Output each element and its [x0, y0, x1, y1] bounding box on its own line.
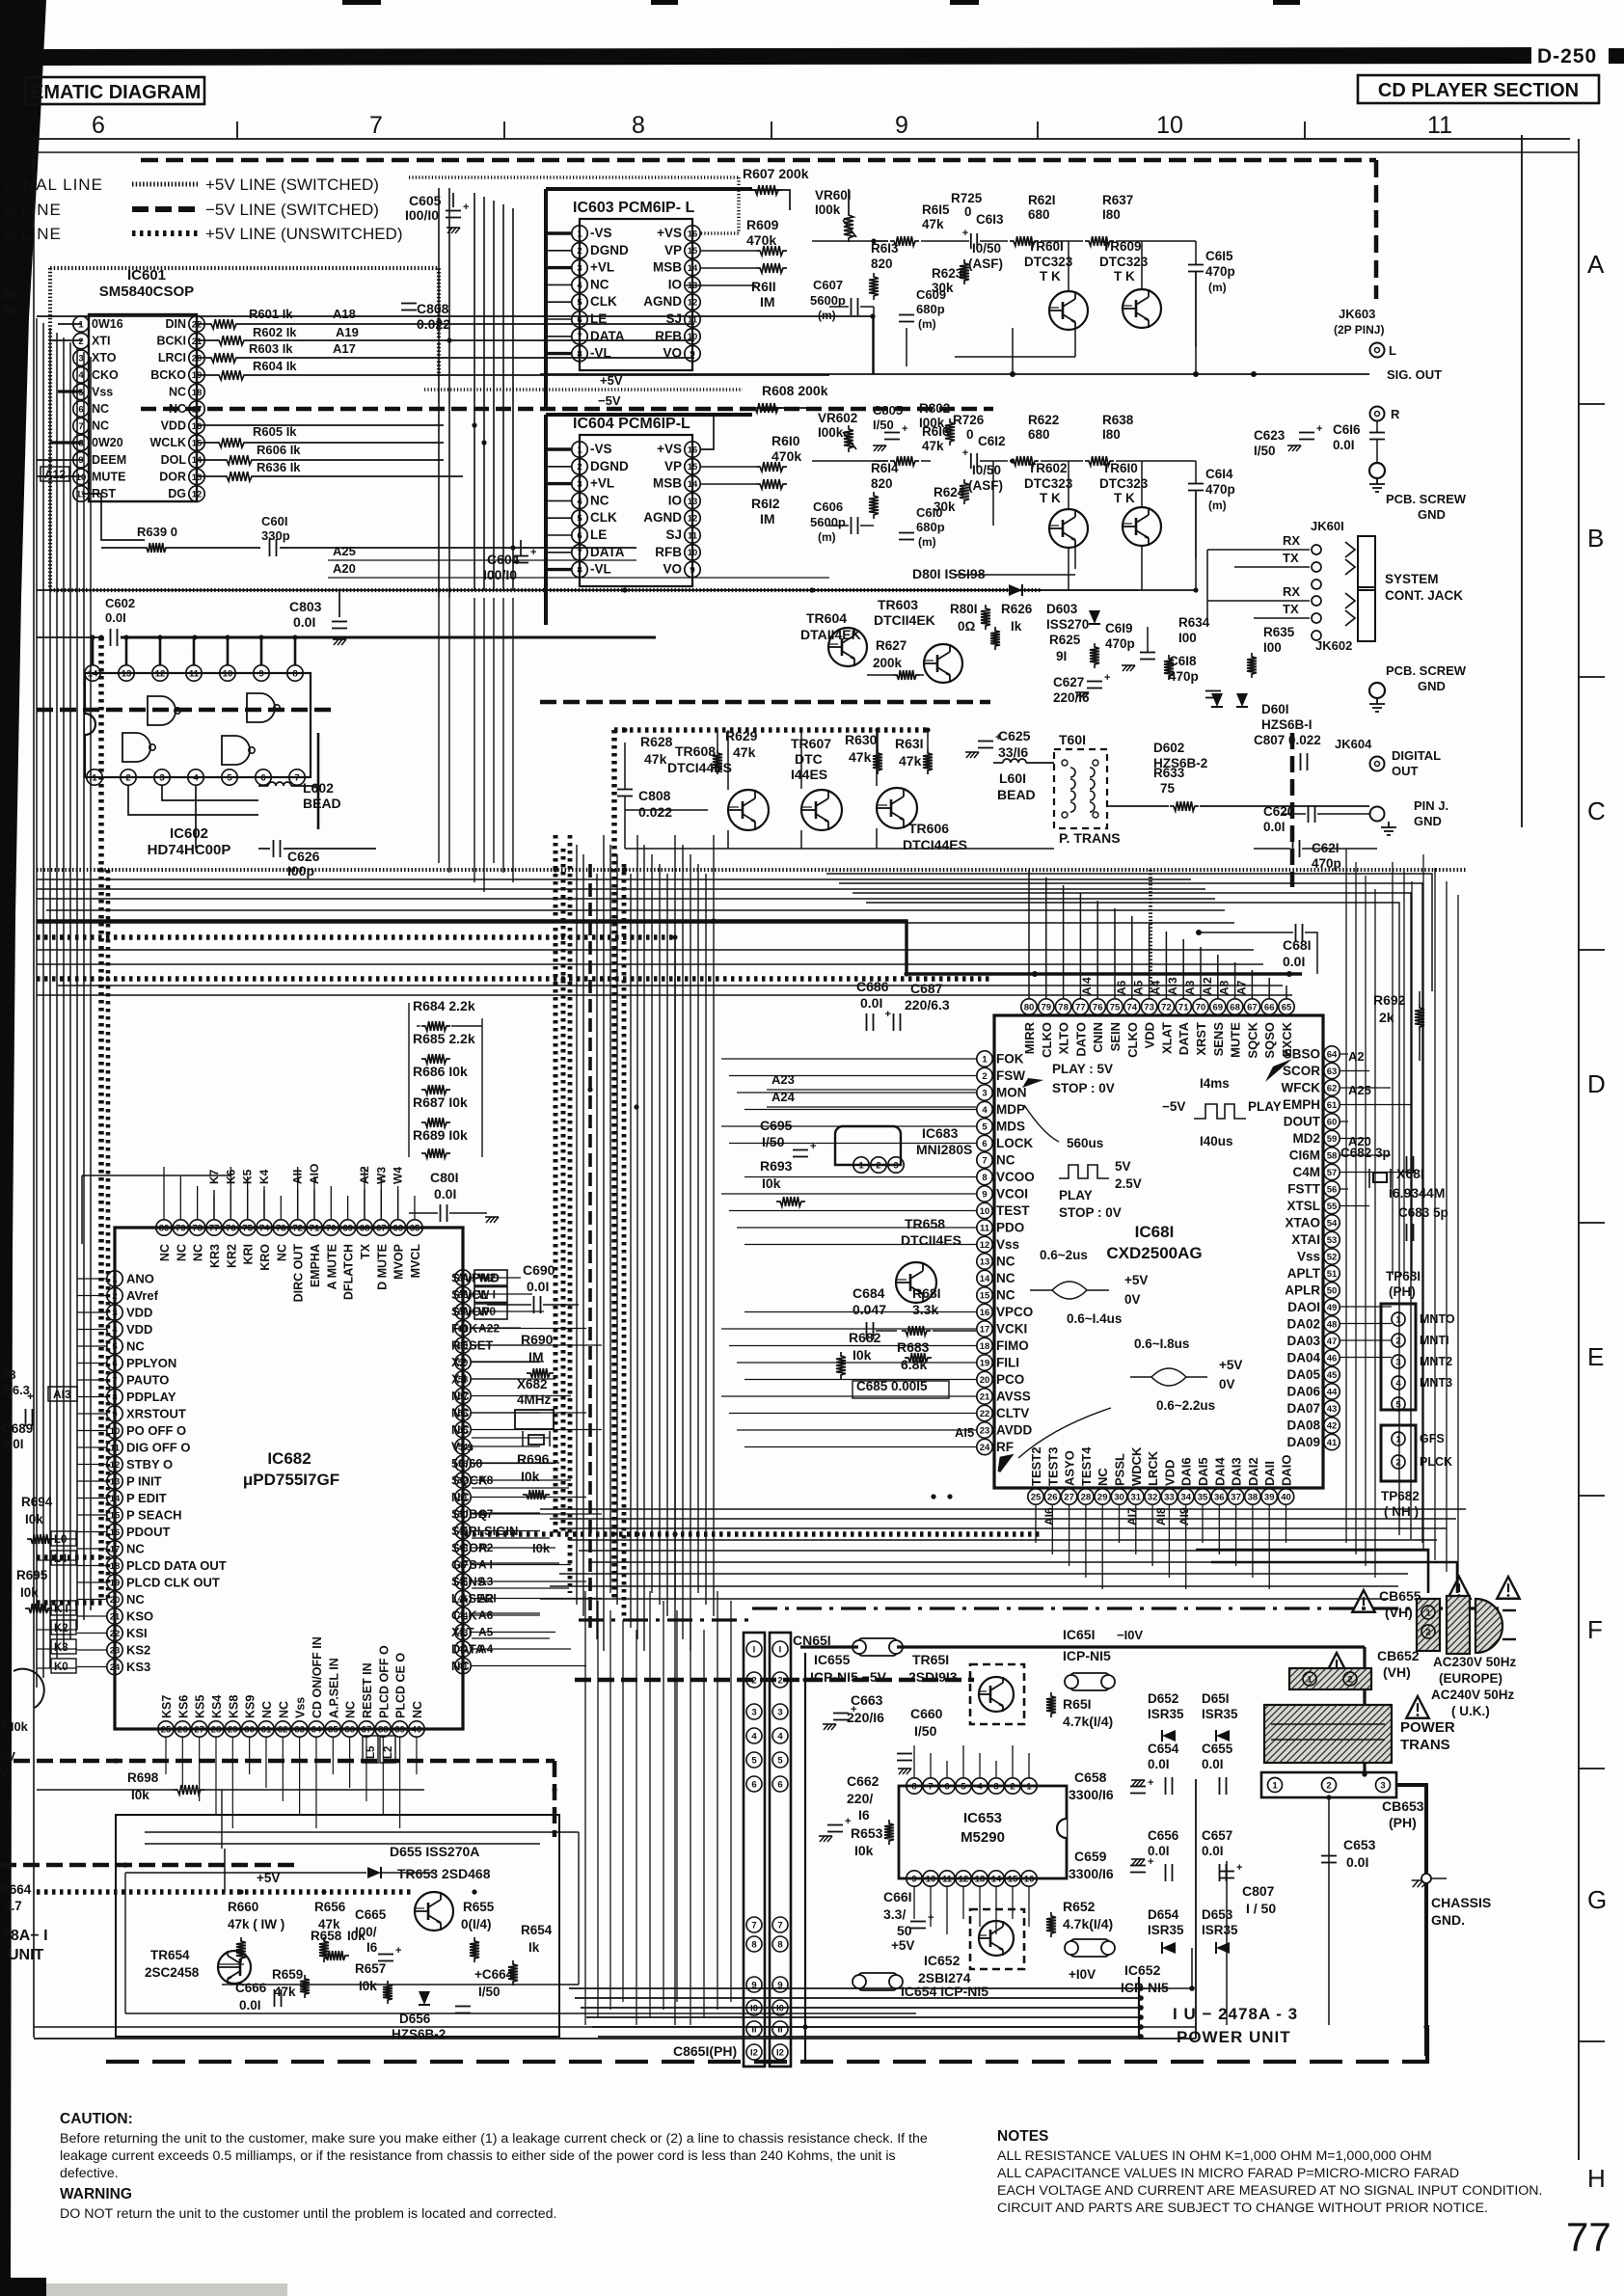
svg-text:DG: DG: [168, 487, 186, 500]
IC601 pin 9 DEEM: [73, 452, 89, 468]
svg-text:DAI6: DAI6: [1179, 1457, 1194, 1486]
svg-text:1: 1: [1026, 1781, 1032, 1792]
IC682 pin 29 KS8: [225, 1721, 240, 1737]
wire SIG OUT: [1138, 373, 1369, 375]
IC682 pin 56 NC: [455, 1405, 471, 1420]
svg-text:DGND: DGND: [590, 243, 629, 257]
IC681 pin 14 NC: [977, 1270, 992, 1285]
svg-text:EMPHA: EMPHA: [309, 1244, 322, 1287]
svg-text:D80I ISSI98: D80I ISSI98: [912, 566, 986, 581]
svg-text:KR2: KR2: [225, 1244, 238, 1268]
IC603 pin 11 SJ: [685, 311, 700, 327]
svg-text:33: 33: [294, 1724, 305, 1735]
IC602 pin 12: [152, 665, 168, 681]
svg-text:DTC: DTC: [795, 751, 823, 767]
svg-text:SQSO: SQSO: [1262, 1022, 1277, 1059]
svg-text:I U − 2478A - 3: I U − 2478A - 3: [1173, 2005, 1298, 2023]
svg-text:29: 29: [228, 1724, 238, 1735]
svg-text:VR602: VR602: [818, 411, 857, 425]
svg-text:4MHz: 4MHz: [517, 1392, 552, 1407]
svg-text:C602: C602: [105, 596, 135, 610]
svg-text:FSW: FSW: [996, 1068, 1025, 1083]
IC682 pin 72 DIRC OUT: [289, 1220, 305, 1235]
svg-text:2: 2: [1395, 1336, 1400, 1346]
IC653 pin 15: [1005, 1871, 1020, 1886]
heavy dash bus bottom left: [0, 1863, 299, 1868]
svg-text:0Ω: 0Ω: [958, 619, 976, 634]
svg-text:MVCL: MVCL: [409, 1244, 422, 1279]
svg-text:NC: NC: [451, 1389, 470, 1403]
svg-text:RFB: RFB: [655, 545, 682, 559]
svg-text:40: 40: [1281, 1492, 1291, 1502]
svg-text:GND: GND: [1414, 814, 1442, 828]
svg-text:0V: 0V: [1124, 1292, 1141, 1307]
svg-text:27: 27: [1064, 1492, 1074, 1502]
svg-text:RESET IN: RESET IN: [361, 1662, 374, 1718]
svg-text:NC: NC: [169, 385, 186, 398]
svg-text:PSSL: PSSL: [1113, 1453, 1127, 1486]
svg-text:35: 35: [1198, 1492, 1208, 1502]
svg-text:VP: VP: [664, 459, 682, 473]
IC682 pin 24 KS3: [107, 1659, 122, 1674]
svg-text:T60I: T60I: [1059, 732, 1086, 747]
svg-text:AVSS: AVSS: [996, 1390, 1031, 1404]
IC682 pin 41 NC: [455, 1658, 471, 1673]
svg-text:79: 79: [176, 1223, 186, 1233]
IC604 pin 6 LE: [572, 527, 587, 543]
svg-text:TEST3: TEST3: [1045, 1447, 1060, 1486]
IC681 pin 11 PDO: [977, 1220, 992, 1235]
jack JK603 R: [1370, 407, 1385, 421]
IC682 pin 42 DATA: [455, 1641, 471, 1657]
svg-text:NC: NC: [590, 493, 609, 507]
svg-text:MON: MON: [996, 1086, 1027, 1100]
svg-text:9: 9: [911, 1874, 916, 1884]
svg-text:0.0I: 0.0I: [1346, 1854, 1368, 1870]
svg-text:16: 16: [980, 1308, 990, 1318]
IC681 pin 62 WFCK: [1324, 1080, 1340, 1095]
svg-text:6: 6: [92, 112, 105, 139]
svg-text:KRO: KRO: [258, 1244, 272, 1271]
IC681 pin 5 MDS: [977, 1119, 992, 1134]
arrow to pin 24: [999, 1456, 1011, 1472]
svg-text:R657: R657: [355, 1961, 386, 1976]
wire from T601 to R633: [1107, 805, 1111, 807]
svg-text:DAI5: DAI5: [1196, 1457, 1210, 1486]
wires corridor to IC681 left pins: [721, 1058, 976, 1060]
svg-text:26: 26: [1047, 1492, 1058, 1502]
svg-text:61: 61: [1327, 1100, 1338, 1111]
svg-text:D603: D603: [1046, 602, 1078, 616]
IC682 pin 34 CD ON/OFF IN: [309, 1721, 324, 1737]
IC682 pin 47 GFS: [455, 1556, 471, 1572]
IC682 pin 3 VDD: [107, 1305, 122, 1320]
IC681 pin 49 DAOI: [1324, 1299, 1340, 1314]
svg-text:AGND: AGND: [643, 294, 682, 309]
svg-text:C605: C605: [409, 193, 442, 208]
svg-text:EMATIC DIAGRAM: EMATIC DIAGRAM: [31, 82, 201, 103]
wires around TR602 row B: [812, 460, 888, 462]
svg-text:77: 77: [1566, 2214, 1611, 2259]
IC653 pin 1: [1021, 1778, 1037, 1794]
svg-text:NC: NC: [275, 1244, 288, 1261]
IC682 pin 46 SENS: [455, 1574, 471, 1589]
legend -5V switched sample line: [132, 206, 198, 212]
svg-text:0.0I: 0.0I: [1333, 438, 1355, 452]
svg-text:M5290: M5290: [961, 1829, 1005, 1846]
svg-text:IM: IM: [760, 294, 775, 310]
svg-text:NC: NC: [411, 1701, 424, 1718]
svg-text:A20: A20: [333, 561, 356, 576]
svg-text:TR609: TR609: [1102, 239, 1142, 254]
svg-text:R659: R659: [272, 1967, 303, 1982]
IC682 pin 36 NC: [341, 1721, 357, 1737]
svg-text:I0: I0: [750, 2004, 758, 2014]
connector CN651 strip A: [744, 1633, 765, 2066]
svg-text:W4: W4: [392, 1167, 405, 1184]
svg-text:9: 9: [258, 668, 263, 679]
heavy dotted columns right of IC682: [554, 835, 558, 1534]
IC604 pin 4 NC: [572, 493, 587, 508]
verticals feeding C8651: [584, 1591, 586, 2025]
svg-text:SCOR: SCOR: [1283, 1064, 1320, 1078]
IC653 pin 5: [956, 1778, 971, 1794]
svg-text:1: 1: [982, 1054, 988, 1065]
svg-text:PO OFF O: PO OFF O: [126, 1423, 186, 1438]
svg-text:3300/I6: 3300/I6: [1069, 1787, 1114, 1802]
IC682 pin 23 KS2: [107, 1642, 122, 1658]
svg-text:A7: A7: [1234, 980, 1248, 995]
svg-text:680p: 680p: [916, 302, 945, 316]
svg-text:A19: A19: [336, 325, 359, 339]
svg-text:0.0I: 0.0I: [1148, 1757, 1170, 1771]
svg-text:200k: 200k: [873, 656, 903, 670]
svg-text:A23: A23: [771, 1072, 795, 1087]
svg-text:CNIN: CNIN: [1091, 1022, 1105, 1053]
svg-text:DA03: DA03: [1286, 1334, 1320, 1348]
svg-text:PCO: PCO: [996, 1372, 1024, 1387]
svg-text:13: 13: [110, 1476, 121, 1487]
wire MUTE: [37, 475, 82, 477]
svg-text:+5V: +5V: [1219, 1358, 1242, 1372]
svg-text:ISR35: ISR35: [1202, 1923, 1238, 1937]
svg-text:IC682: IC682: [267, 1449, 311, 1468]
svg-text:+: +: [1148, 1777, 1153, 1789]
column ruler ticks: [236, 122, 238, 139]
svg-text:I00k: I00k: [815, 203, 841, 217]
IC681 pin 76 CNIN: [1090, 999, 1105, 1014]
IC682 pin 12 STBY O: [107, 1456, 122, 1472]
svg-text:VDD: VDD: [126, 1322, 152, 1337]
svg-text:TR653 2SD468: TR653 2SD468: [397, 1866, 491, 1881]
svg-text:10: 10: [1156, 112, 1183, 139]
svg-text:74: 74: [1127, 1002, 1138, 1013]
svg-text:78: 78: [192, 1223, 203, 1233]
svg-text:L: L: [1389, 343, 1396, 358]
svg-text:T K: T K: [1040, 491, 1061, 505]
IC682 pin 37 RESET IN: [359, 1721, 374, 1737]
svg-text:680: 680: [1028, 427, 1050, 442]
svg-text:75: 75: [242, 1223, 253, 1233]
svg-text:PDOUT: PDOUT: [126, 1525, 171, 1539]
svg-text:R80I: R80I: [950, 602, 978, 616]
svg-text:+: +: [851, 1704, 856, 1715]
svg-text:33/I6: 33/I6: [998, 744, 1028, 760]
svg-text:12: 12: [192, 489, 203, 500]
svg-text:+5V: +5V: [1124, 1273, 1148, 1287]
svg-text:0V: 0V: [1219, 1377, 1235, 1391]
IC681 pin 80 MIRR: [1021, 999, 1037, 1014]
svg-text:38: 38: [1248, 1492, 1259, 1502]
svg-text:47k ( IW ): 47k ( IW ): [228, 1917, 284, 1931]
IC682 pin 11 DIG OFF O: [107, 1440, 122, 1455]
svg-text:FILI: FILI: [996, 1356, 1019, 1370]
TP681 pin 5: [1392, 1397, 1405, 1411]
svg-text:ALL CAPACITANCE VALUES IN MICR: ALL CAPACITANCE VALUES IN MICRO FARAD P=…: [997, 2166, 1459, 2181]
svg-text:NC: NC: [92, 419, 109, 433]
svg-text:2: 2: [112, 1291, 117, 1302]
svg-text:+5V LINE (UNSWITCHED): +5V LINE (UNSWITCHED): [205, 225, 403, 243]
svg-text:2: 2: [1347, 1674, 1352, 1685]
svg-text:0W16: 0W16: [92, 317, 123, 331]
svg-text:(EUROPE): (EUROPE): [1439, 1671, 1502, 1686]
svg-text:39: 39: [394, 1724, 405, 1735]
svg-text:Before returning the unit to t: Before returning the unit to the custome…: [60, 2131, 928, 2147]
IC682 pin 6 PPLYON: [107, 1355, 122, 1370]
svg-text:R608 200k: R608 200k: [762, 383, 828, 398]
svg-text:0.0I: 0.0I: [1148, 1844, 1170, 1858]
svg-text:67: 67: [1247, 1002, 1258, 1013]
svg-text:7: 7: [777, 1921, 782, 1931]
left scan-edge black bar: [0, 0, 46, 2296]
svg-text:UNIT: UNIT: [8, 1947, 44, 1963]
IC681 pin 42 DA08: [1324, 1418, 1340, 1433]
IC682 pin 40 NC: [409, 1721, 424, 1737]
svg-text:2: 2: [1326, 1780, 1331, 1791]
svg-text:+VL: +VL: [590, 476, 614, 491]
IC681 pin 7 NC: [977, 1152, 992, 1168]
svg-text:MD2: MD2: [1292, 1131, 1320, 1146]
svg-text:PAUTO: PAUTO: [126, 1373, 169, 1388]
svg-text:TP682: TP682: [1381, 1489, 1420, 1503]
svg-text:ICP-NI5: ICP-NI5: [1063, 1648, 1111, 1663]
svg-text:68: 68: [360, 1223, 370, 1233]
svg-text:I0k: I0k: [25, 1512, 43, 1526]
svg-text:RX: RX: [1283, 533, 1300, 548]
AC plug: [1475, 1599, 1502, 1653]
svg-text:5: 5: [751, 1756, 757, 1767]
svg-text:12: 12: [959, 1874, 969, 1884]
IC681 pin 70 XRST: [1193, 999, 1208, 1014]
svg-text:C690: C690: [523, 1262, 555, 1278]
svg-text:C6I6: C6I6: [1333, 422, 1361, 437]
svg-text:DTC323: DTC323: [1024, 476, 1073, 491]
svg-text:A8: A8: [1218, 980, 1232, 995]
svg-text:R693: R693: [760, 1158, 793, 1174]
svg-text:31: 31: [261, 1724, 272, 1735]
svg-text:JK60I: JK60I: [1311, 519, 1344, 533]
svg-text:40: 40: [412, 1724, 422, 1735]
svg-text:CLK: CLK: [590, 510, 617, 525]
svg-text:50: 50: [897, 1923, 912, 1938]
IC681 pin 37 DAI3: [1228, 1489, 1243, 1504]
svg-text:4.7k(I/4): 4.7k(I/4): [1063, 1916, 1113, 1931]
svg-text:16: 16: [110, 1527, 121, 1538]
svg-text:C865I(PH): C865I(PH): [673, 2043, 737, 2059]
svg-text:39: 39: [1264, 1492, 1275, 1502]
svg-text:3: 3: [577, 479, 582, 490]
IC603 pin 2 DGND: [572, 243, 587, 258]
svg-text:78: 78: [1058, 1002, 1069, 1013]
svg-text:BEAD: BEAD: [997, 787, 1036, 802]
svg-text:66: 66: [1264, 1002, 1275, 1013]
svg-text:I/50: I/50: [873, 418, 894, 432]
CN651 pin 3: [746, 1704, 762, 1719]
svg-text:AGND: AGND: [643, 510, 682, 525]
svg-text:FIMO: FIMO: [996, 1338, 1029, 1353]
svg-text:TEST: TEST: [996, 1203, 1030, 1218]
IC682 pin 43 XLT: [455, 1624, 471, 1639]
IC603 pin 5 CLK: [572, 294, 587, 310]
svg-text:C6I4: C6I4: [1205, 467, 1233, 481]
svg-text:SJ: SJ: [665, 527, 682, 542]
svg-text:15: 15: [688, 246, 698, 257]
wires to CB655 connectors: [1196, 1550, 1428, 1593]
svg-text:4: 4: [577, 281, 582, 291]
svg-text:DO NOT return the unit to the: DO NOT return the unit to the customer u…: [60, 2206, 556, 2222]
TP681 pin 3: [1392, 1355, 1405, 1368]
svg-text:TR608: TR608: [675, 743, 716, 759]
svg-text:C695: C695: [760, 1118, 793, 1133]
svg-text:D MUTE: D MUTE: [375, 1244, 389, 1290]
IC681 pin 28 TEST4: [1078, 1489, 1094, 1504]
svg-text:( NH ): ( NH ): [1384, 1504, 1419, 1519]
IC681 pin 25 TEST2: [1028, 1489, 1043, 1504]
IC604 pin 10 RFB: [685, 545, 700, 560]
heavy power unit right border: [1395, 1785, 1426, 2056]
svg-text:59: 59: [1327, 1134, 1338, 1145]
svg-text:C: C: [1587, 797, 1606, 825]
svg-text:PLCK: PLCK: [1420, 1455, 1452, 1469]
svg-text:NC: NC: [344, 1701, 358, 1718]
IC681 pin 52 Vss: [1324, 1249, 1340, 1264]
svg-text:25: 25: [1031, 1492, 1042, 1502]
svg-text:0.0I: 0.0I: [105, 610, 126, 625]
svg-text:DTCI44ES: DTCI44ES: [667, 760, 732, 775]
svg-text:0(I/4): 0(I/4): [461, 1917, 492, 1931]
svg-text:A12: A12: [44, 468, 66, 481]
IC681 pin 21 AVSS: [977, 1389, 992, 1404]
svg-text:9: 9: [895, 112, 908, 139]
diamond bus y1615 left of IC682: [37, 1554, 106, 1560]
IC682 pin 5 NC: [107, 1338, 122, 1354]
IC601 pin 19 BCKO: [189, 367, 204, 383]
svg-text:DEEM: DEEM: [92, 453, 126, 467]
svg-text:30: 30: [1114, 1492, 1124, 1502]
svg-text:DAIO: DAIO: [1280, 1455, 1294, 1487]
svg-text:R802: R802: [919, 401, 950, 416]
svg-text:LRCK: LRCK: [1146, 1450, 1160, 1486]
IC682 pin 7 PAUTO: [107, 1372, 122, 1388]
svg-text:(m): (m): [818, 309, 836, 322]
svg-text:(PH): (PH): [1389, 1815, 1417, 1830]
warning triangles top right: [1448, 1577, 1470, 1599]
svg-text:57: 57: [1327, 1168, 1338, 1178]
svg-text:DATO: DATO: [1073, 1022, 1088, 1057]
svg-text:17: 17: [980, 1324, 990, 1335]
svg-text:11: 11: [189, 668, 200, 679]
CN651 pin I0: [746, 2000, 762, 2015]
svg-text:6: 6: [777, 1780, 782, 1791]
svg-text:AI3: AI3: [1166, 977, 1179, 995]
svg-text:R607 200k: R607 200k: [743, 166, 809, 181]
dash bus right side section C: [1290, 733, 1295, 887]
IC681 pin 55 XTSL: [1324, 1198, 1340, 1213]
junction dots on buses: [98, 635, 103, 639]
IC682 pin 8 PDPLAY: [107, 1389, 122, 1404]
IC682 pin 22 KSI: [107, 1625, 122, 1640]
svg-text:8: 8: [632, 112, 645, 139]
svg-text:KSI: KSI: [126, 1626, 148, 1640]
svg-text:μPD755I7GF: μPD755I7GF: [243, 1471, 339, 1489]
svg-text:( U.K.): ( U.K.): [1451, 1704, 1490, 1718]
svg-text:32: 32: [278, 1724, 288, 1735]
svg-text:KRI: KRI: [242, 1244, 256, 1265]
IC653 M5290 body: [899, 1786, 1067, 1878]
IC681 pin 16 VPCO: [977, 1304, 992, 1319]
svg-text:8: 8: [292, 668, 297, 679]
svg-text:AI3: AI3: [53, 1388, 71, 1401]
IC601 pin 11 RST: [73, 486, 89, 501]
bottom-left circuit wires: [125, 2012, 916, 2014]
svg-text:0/6.3: 0/6.3: [2, 1383, 30, 1397]
IC603 pin 8 -VL: [572, 345, 587, 361]
IC681 pin 45 DA05: [1324, 1366, 1340, 1382]
legend +5V switched sample line: [132, 182, 198, 187]
svg-text:WDCK: WDCK: [1129, 1446, 1144, 1486]
svg-text:VR60I: VR60I: [815, 188, 852, 203]
svg-text:I: I: [753, 1645, 756, 1656]
svg-text:6: 6: [982, 1139, 987, 1149]
svg-text:DA09: DA09: [1286, 1435, 1320, 1449]
IC682 pin 14 P EDIT: [107, 1490, 122, 1505]
IC681 pin 33 VDD: [1161, 1489, 1177, 1504]
svg-text:41: 41: [1327, 1438, 1338, 1448]
svg-text:C654: C654: [1148, 1742, 1179, 1756]
svg-text:R: R: [1391, 407, 1400, 421]
svg-text:NC: NC: [158, 1244, 172, 1261]
svg-text:R602 Ik: R602 Ik: [253, 325, 297, 339]
svg-text:34: 34: [1180, 1492, 1191, 1502]
svg-text:11: 11: [1427, 112, 1452, 139]
svg-text:62: 62: [1327, 1083, 1338, 1094]
svg-text:+5V LINE (SWITCHED): +5V LINE (SWITCHED): [205, 176, 379, 194]
svg-text:15: 15: [192, 439, 203, 449]
svg-text:T K: T K: [1114, 491, 1135, 505]
svg-text:0.6~I.8us: 0.6~I.8us: [1134, 1337, 1189, 1351]
thick signal line y955 jog y1010: [37, 921, 1302, 974]
svg-text:32: 32: [1148, 1492, 1158, 1502]
svg-text:3: 3: [577, 263, 582, 274]
svg-text:R685 2.2k: R685 2.2k: [413, 1031, 475, 1046]
svg-text:30: 30: [244, 1724, 255, 1735]
svg-text:2.5V: 2.5V: [1115, 1176, 1142, 1191]
svg-text:C665: C665: [355, 1907, 387, 1922]
svg-text:5: 5: [982, 1121, 988, 1132]
IC603 thick frame wires: [546, 187, 752, 191]
column ruler line: [29, 138, 1570, 140]
IC682 pin 4 VDD: [107, 1321, 122, 1337]
